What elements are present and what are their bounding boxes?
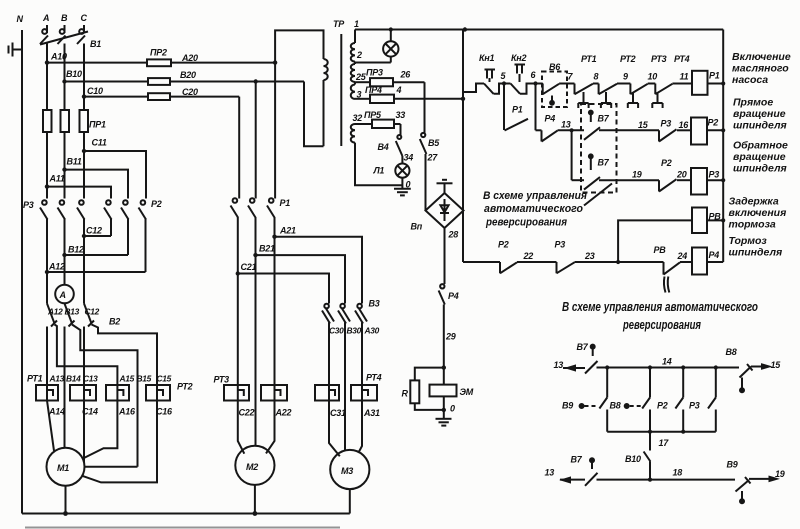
svg-text:34: 34 [404,153,414,163]
svg-text:С22: С22 [239,408,255,418]
svg-text:ПР3: ПР3 [366,68,383,78]
svg-text:А15: А15 [119,374,135,384]
svg-text:11: 11 [680,72,689,82]
svg-text:20: 20 [676,170,687,180]
svg-text:С14: С14 [82,407,98,417]
svg-text:26: 26 [400,70,412,80]
svg-text:10: 10 [648,72,658,82]
svg-text:ПР5: ПР5 [364,110,382,120]
svg-text:С12: С12 [86,226,102,236]
svg-text:В10: В10 [66,69,82,79]
svg-text:шпинделя: шпинделя [729,247,783,259]
svg-text:17: 17 [659,438,670,448]
svg-text:РВ: РВ [654,245,667,255]
svg-text:Р2: Р2 [661,158,672,168]
svg-text:В5: В5 [428,138,440,148]
svg-text:масляного: масляного [732,63,789,75]
svg-text:Задержка: Задержка [729,196,779,208]
svg-text:Прямое: Прямое [733,97,773,109]
svg-text:ПР4: ПР4 [365,85,382,95]
svg-text:Включение: Включение [732,51,791,63]
svg-text:А12: А12 [47,307,63,317]
svg-text:С20: С20 [182,87,198,97]
svg-text:А12: А12 [48,262,65,272]
svg-text:C: C [81,13,88,23]
svg-text:С31: С31 [330,408,346,418]
svg-text:В10: В10 [625,454,641,464]
svg-text:Р1: Р1 [709,71,720,81]
svg-text:4: 4 [396,85,402,95]
svg-text:ПР2: ПР2 [150,48,167,58]
svg-text:Р3: Р3 [709,170,720,180]
svg-text:В схеме управления: В схеме управления [483,190,587,202]
svg-text:А11: А11 [49,174,65,184]
svg-text:А31: А31 [363,408,380,418]
svg-text:А30: А30 [364,326,380,336]
svg-text:В9: В9 [562,401,573,411]
svg-text:14: 14 [662,357,672,367]
svg-text:А22: А22 [275,408,292,418]
svg-text:вращение: вращение [733,151,786,163]
svg-text:В2: В2 [109,317,120,327]
svg-text:Р4: Р4 [545,114,556,124]
svg-text:РВ: РВ [709,212,722,222]
svg-text:С12: С12 [85,307,100,317]
svg-text:А10: А10 [50,52,67,62]
svg-text:25: 25 [355,72,367,82]
svg-text:Р2: Р2 [657,401,668,411]
svg-text:Р3: Р3 [689,401,700,411]
svg-text:3: 3 [357,90,362,100]
svg-text:тормоза: тормоза [729,219,776,231]
svg-text:РТ4: РТ4 [366,373,382,383]
svg-text:В12: В12 [68,245,84,255]
svg-text:13: 13 [554,360,564,370]
svg-text:РТ2: РТ2 [620,54,636,64]
svg-text:15: 15 [771,360,782,370]
svg-text:19: 19 [775,469,785,479]
svg-text:реверсирования: реверсирования [485,217,567,229]
svg-text:С30: С30 [329,326,344,336]
svg-text:РТ1: РТ1 [581,54,597,64]
svg-text:В14: В14 [66,374,81,384]
svg-text:Р3: Р3 [661,119,672,129]
svg-text:В схеме управления автоматичес: В схеме управления автоматического [562,300,758,314]
svg-text:В8: В8 [726,347,737,357]
svg-text:В21: В21 [259,244,275,254]
svg-text:Обратное: Обратное [733,140,788,152]
svg-text:1: 1 [354,19,359,29]
svg-text:М3: М3 [341,466,353,476]
svg-text:13: 13 [545,468,555,478]
svg-text:ТР: ТР [333,19,345,29]
svg-text:А16: А16 [118,407,136,417]
svg-text:29: 29 [445,332,456,342]
svg-text:автоматического: автоматического [484,203,583,215]
svg-text:РТ3: РТ3 [214,375,230,385]
svg-text:С16: С16 [156,407,173,417]
svg-text:27: 27 [427,153,439,163]
svg-text:В1: В1 [90,39,101,49]
svg-text:A: A [42,13,49,23]
svg-text:Р1: Р1 [280,198,291,208]
svg-text:Р4: Р4 [448,291,459,301]
svg-text:8: 8 [594,72,599,82]
svg-text:В20: В20 [180,70,196,80]
svg-text:16: 16 [679,120,690,130]
svg-text:Тормоз: Тормоз [729,235,768,247]
svg-text:0: 0 [450,404,455,414]
svg-text:N: N [17,14,24,24]
svg-text:А20: А20 [181,53,198,63]
svg-text:включения: включения [729,207,787,219]
svg-text:Р2: Р2 [708,118,719,128]
svg-text:РТ1: РТ1 [27,374,43,384]
svg-text:М2: М2 [246,462,258,472]
svg-text:13: 13 [561,120,571,130]
svg-text:Р2: Р2 [498,240,509,250]
svg-text:Р4: Р4 [709,250,720,260]
svg-text:В8: В8 [610,401,621,411]
svg-text:24: 24 [677,251,688,261]
svg-text:33: 33 [396,110,406,120]
svg-text:28: 28 [448,230,459,240]
svg-text:Р1: Р1 [512,105,523,115]
svg-text:R: R [402,389,409,399]
svg-text:19: 19 [632,170,642,180]
svg-text:С15: С15 [157,374,172,384]
svg-text:В6: В6 [549,62,561,72]
svg-text:22: 22 [523,251,534,261]
svg-text:В4: В4 [378,142,389,152]
svg-text:А13: А13 [49,374,65,384]
svg-text:В13: В13 [65,307,80,317]
svg-text:23: 23 [584,251,595,261]
svg-text:С13: С13 [83,374,98,384]
svg-text:В11: В11 [67,157,82,167]
svg-text:В7: В7 [598,114,610,124]
svg-text:Кн2: Кн2 [511,53,526,63]
svg-text:вращение: вращение [733,108,786,120]
svg-text:В9: В9 [727,460,738,470]
svg-text:РТ3: РТ3 [651,54,667,64]
svg-text:Вп: Вп [411,222,423,232]
svg-text:В7: В7 [598,158,610,168]
svg-text:0: 0 [406,180,411,190]
svg-text:М1: М1 [57,463,69,473]
svg-text:18: 18 [673,468,683,478]
svg-text:Р3: Р3 [555,240,566,250]
svg-text:С11: С11 [92,138,107,148]
svg-text:9: 9 [623,72,628,82]
svg-text:насоса: насоса [732,74,768,86]
svg-text:В3: В3 [369,299,380,309]
svg-text:А14: А14 [48,407,65,417]
svg-text:В15: В15 [137,374,152,384]
svg-text:С10: С10 [87,86,103,96]
svg-text:A: A [59,290,66,300]
svg-text:2: 2 [356,50,362,60]
svg-text:ПР1: ПР1 [89,120,106,130]
svg-text:РТ2: РТ2 [177,382,193,392]
svg-text:шпинделя: шпинделя [733,163,787,175]
svg-text:Р3: Р3 [23,200,34,210]
svg-text:шпинделя: шпинделя [733,120,787,132]
svg-text:реверсирования: реверсирования [622,318,701,332]
svg-text:В30: В30 [347,326,362,336]
svg-text:Кн1: Кн1 [479,53,494,63]
svg-text:В7: В7 [571,455,583,465]
svg-text:А21: А21 [279,226,296,236]
svg-text:B: B [61,13,68,23]
svg-text:15: 15 [638,120,649,130]
svg-text:ЭМ: ЭМ [460,387,474,397]
svg-text:В7: В7 [577,342,589,352]
svg-text:РТ4: РТ4 [674,54,690,64]
svg-text:Л1: Л1 [373,166,385,176]
svg-text:32: 32 [353,113,363,123]
svg-text:С21: С21 [241,262,257,272]
svg-text:Р2: Р2 [151,199,162,209]
